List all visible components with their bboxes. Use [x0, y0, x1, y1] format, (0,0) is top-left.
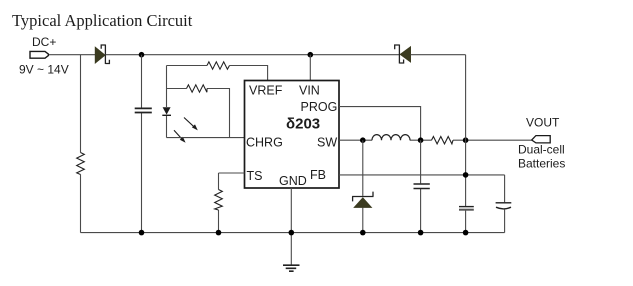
node dot rail C1: [139, 230, 145, 236]
wire SW output line: [339, 139, 532, 141]
capacitor C4 (battery, polarized): [496, 202, 512, 204]
node dot inductor / PROG / C2 branch: [418, 137, 424, 143]
svg-text:TS: TS: [247, 169, 263, 183]
wire TS branch: [219, 173, 245, 233]
svg-text:Typical Application Circuit: Typical Application Circuit: [12, 11, 193, 30]
capacitor C2: [414, 184, 430, 189]
output connector J2 (VOUT): [532, 136, 551, 143]
wire subcircuit top rail to VREF: [167, 66, 268, 81]
node dot output top: [463, 137, 469, 143]
node dot top rail / C1 branch: [139, 52, 145, 58]
wire CHRG line (LED subcircuit bottom): [167, 137, 245, 139]
wire right battery branch vertical: [504, 175, 506, 233]
svg-text:VIN: VIN: [299, 84, 320, 98]
node dot rail D4: [360, 230, 366, 236]
svg-text:SW: SW: [317, 136, 337, 150]
svg-text:9V ~ 14V: 9V ~ 14V: [19, 63, 69, 77]
wire GND pin drop: [290, 188, 292, 265]
resistor R4 (output sense): [432, 137, 454, 144]
wire top rail from D2 to right drop: [411, 54, 466, 56]
wire input branch vertical with resistor position: [80, 55, 82, 233]
wire LED subcircuit left vertical: [166, 66, 168, 138]
diode D2 (schottky, top right): [395, 45, 411, 64]
wire top rail from D1 to D2: [105, 54, 399, 56]
wire PROG to inductor node: [339, 107, 421, 140]
capacitor C3 (output): [459, 206, 474, 208]
svg-text:VOUT: VOUT: [526, 116, 560, 130]
wire subcircuit middle rail: [167, 89, 230, 138]
input connector J1 (DC+): [30, 51, 48, 58]
ground symbol: [283, 265, 300, 271]
diode D4 (schottky catch, vertical): [352, 140, 373, 232]
svg-text:VREF: VREF: [249, 84, 283, 98]
capacitor C2 branch wire: [420, 140, 422, 232]
resistor R2 (top of LED subcircuit): [207, 62, 230, 69]
diode D1 (schottky, input): [95, 45, 109, 65]
node dot VIN branch: [308, 52, 314, 58]
inductor L1: [372, 135, 410, 141]
node dot FB / output: [463, 172, 469, 178]
resistor R5 (TS thermistor): [215, 190, 223, 211]
resistor R1 (input divider left): [77, 153, 85, 175]
resistor R3 (middle of LED subcircuit): [187, 85, 208, 92]
svg-text:δ203: δ203: [286, 115, 320, 132]
wire top rail from J1 to D1: [49, 54, 95, 56]
wire C1 branch vertical: [141, 55, 143, 233]
node dot rail TS resistor: [216, 230, 222, 236]
svg-text:Dual-cell: Dual-cell: [518, 143, 565, 157]
svg-text:DC+: DC+: [32, 35, 56, 49]
wire bottom ground rail: [81, 232, 505, 234]
svg-text:CHRG: CHRG: [246, 136, 283, 150]
IC U1 box: [245, 81, 340, 189]
node dot SW / D4 branch: [360, 137, 366, 143]
wire right drop from top rail to output node and down to ground: [465, 55, 467, 233]
svg-text:Batteries: Batteries: [518, 157, 565, 171]
node dot rail C3: [463, 230, 469, 236]
svg-text:GND: GND: [279, 174, 307, 188]
LED D3 (charge indicator): [162, 107, 198, 143]
node dot rail GND: [289, 230, 295, 236]
wire VIN drop: [309, 55, 311, 81]
wire FB line: [339, 174, 505, 176]
node dot rail C2: [418, 230, 424, 236]
svg-text:PROG: PROG: [301, 100, 338, 114]
svg-text:FB: FB: [310, 168, 326, 182]
capacitor C1 (input): [135, 108, 152, 112]
